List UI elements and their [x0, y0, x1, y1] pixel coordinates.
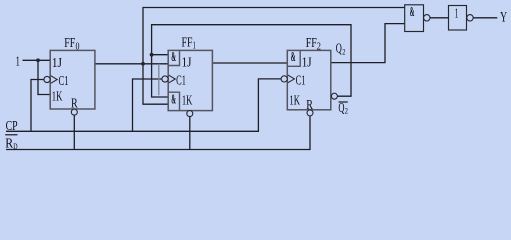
node: junction dot Q2bar branch to FF1 1J-AND — [150, 53, 154, 57]
flip-flop FF0 box — [50, 50, 95, 109]
wire: faint vertical segment left of FF1 (scan ghost) — [158, 64, 160, 96]
wire: Q2bar from FF2 Qbar bubble, up right of FF2, across inner top rail, down to FF1 1K-AND upper input — [152, 25, 351, 97]
svg-text:1K: 1K — [52, 89, 63, 104]
svg-text:1J: 1J — [182, 55, 192, 70]
wire: RD rail up to FF2 R bubble — [6, 116, 310, 150]
svg-text:&: & — [171, 91, 176, 106]
svg-text:FF: FF — [64, 36, 75, 51]
gate AND partition for FF1 1K — [168, 92, 179, 110]
pin C1 of FF2 bubble — [281, 76, 287, 82]
flip-flop FF1 box — [168, 50, 212, 110]
wire: FF0 R bubble down to RD rail — [73, 115, 75, 150]
svg-text:C1: C1 — [296, 74, 306, 89]
pin C1 of FF2 dynamic edge indicator — [288, 75, 295, 83]
svg-text:0: 0 — [76, 42, 80, 53]
wire: branch of Q2bar to FF1 1J-AND upper input — [152, 54, 169, 56]
svg-text:C1: C1 — [176, 74, 186, 89]
gate AND partition for FF2 1J — [287, 50, 300, 66]
wire: branch of constant 1 down to FF0 1K — [38, 60, 50, 94]
pin R of FF2 bubble — [307, 110, 313, 116]
wire: FF1 C1 left and down to CP rail — [133, 79, 163, 131]
node: junction dot constant-1 branch — [36, 58, 40, 62]
gate NAND U1 output bubble — [424, 15, 430, 21]
svg-text:CP: CP — [6, 119, 18, 134]
svg-text:2: 2 — [345, 106, 348, 116]
svg-text:D: D — [13, 141, 17, 151]
wire: FF2 Q2 output right then up to NAND lower input — [331, 24, 405, 63]
svg-text:2: 2 — [317, 41, 321, 52]
svg-text:&: & — [171, 49, 176, 64]
wire: CP rail with riser to FF2 C1 — [6, 79, 281, 131]
wire: inverter output bubble to Y — [473, 17, 497, 19]
svg-text:Y: Y — [500, 9, 508, 25]
wire: FF1 Q1 output to FF2 1J-AND input — [212, 62, 287, 64]
gate NAND U1 box — [405, 5, 424, 32]
wire: FF1 R bubble down to RD rail — [189, 117, 191, 150]
gate inverter U2 output bubble — [467, 15, 473, 21]
svg-text:1: 1 — [16, 55, 20, 70]
pin C1 of FF1 dynamic edge indicator — [169, 75, 176, 83]
svg-text:1K: 1K — [289, 93, 300, 108]
svg-text:C1: C1 — [59, 74, 69, 89]
svg-text:1: 1 — [455, 7, 459, 22]
svg-text:1: 1 — [193, 41, 196, 52]
svg-text:2: 2 — [342, 46, 345, 56]
flip-flop FF2 box — [287, 50, 331, 109]
wire: Q0 outer top feedback rail to NAND upper input, down between FF0 and FF1 to FF1 1K-AND lower input — [143, 8, 405, 105]
svg-text:&: & — [410, 4, 415, 19]
svg-text:FF: FF — [182, 36, 193, 51]
pin C1 of FF1 bubble — [162, 76, 168, 82]
svg-text:Q: Q — [336, 42, 342, 57]
wire: FF0 Q0 output to FF1 1J-AND lower input — [95, 63, 168, 65]
svg-text:&: & — [291, 49, 296, 64]
svg-text:1J: 1J — [52, 56, 62, 71]
svg-text:FF: FF — [306, 36, 317, 51]
pin C1 of FF0 dynamic edge indicator — [51, 76, 58, 84]
gate AND partition for FF1 1J — [168, 50, 179, 65]
wire: NAND output bubble to inverter — [430, 17, 449, 19]
wire: FF0 C1 left and down to CP rail — [31, 80, 44, 132]
pin R of FF0 bubble — [71, 109, 77, 115]
svg-text:Q: Q — [338, 101, 344, 116]
wire: constant 1 to FF0 1J — [23, 59, 51, 61]
gate inverter U2 box — [449, 6, 467, 31]
pin C1 of FF0 bubble — [44, 76, 50, 82]
svg-text:1J: 1J — [302, 56, 312, 71]
svg-text:1K: 1K — [182, 93, 193, 108]
pin Q2bar of FF2 output bubble — [331, 93, 337, 99]
node: junction dot Q0 tap to outer rail — [141, 62, 145, 66]
pin R of FF1 bubble — [187, 111, 193, 117]
